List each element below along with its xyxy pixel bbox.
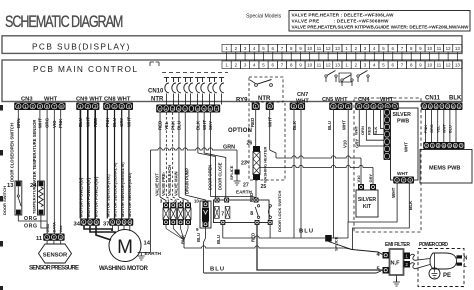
svg-text:Vcc: Vcc [58, 225, 63, 233]
svg-text:CN5 WHT: CN5 WHT [322, 97, 348, 103]
svg-text:DOOR LOCK SWITCH: DOOR LOCK SWITCH [277, 191, 282, 232]
drain pump wire BLU down [204, 227, 206, 273]
svg-text:MOTOR POWER(U): MOTOR POWER(U) [79, 177, 84, 217]
svg-text:WATER TEMPERATURE SENSOR: WATER TEMPERATURE SENSOR [32, 120, 37, 186]
valve common wires to earth bus [166, 225, 188, 229]
wire GRN down to motor earth [150, 150, 152, 253]
svg-text:WHT: WHT [397, 171, 408, 177]
relay symbols above CN5 CN4 [325, 75, 327, 77]
wire BLU motor sensor [114, 110, 116, 219]
wire WHT motor sensor [128, 110, 130, 219]
svg-text:OPTION: OPTION [228, 128, 252, 134]
svg-text:ORG: ORG [24, 216, 37, 222]
svg-text:BLU: BLU [112, 118, 117, 127]
svg-text:YEL: YEL [436, 125, 440, 133]
svg-text:V10: V10 [356, 175, 361, 183]
svg-text:TEMPERATURE: TEMPERATURE [31, 184, 36, 214]
svg-text:7: 7 [441, 105, 443, 109]
svg-text:WHT: WHT [442, 124, 446, 133]
svg-text:WHT: WHT [342, 120, 347, 130]
door lock terminals bottom [220, 220, 225, 225]
svg-text:ORN: ORN [360, 126, 365, 135]
connector CN4 pins [355, 103, 399, 111]
svg-text:BLK: BLK [181, 234, 186, 244]
svg-text:BLU: BLU [177, 121, 182, 130]
svg-text:NTR: NTR [258, 96, 271, 102]
washing motor M [109, 230, 141, 262]
PCB SUB DISPLAY board [2, 36, 462, 54]
valve pre coil [170, 203, 176, 209]
connector CN9 pins [76, 103, 99, 111]
svg-text:SENSOR: SENSOR [43, 252, 68, 258]
wires between display connectors [226, 52, 228, 61]
svg-text:ORG: ORG [430, 124, 434, 133]
bus BLU door lock to splice [223, 236, 348, 238]
wires CN11 to MEMS [425, 110, 427, 143]
earth 27 [236, 175, 238, 179]
connector CN5 pins [329, 103, 352, 111]
wire PNK motor sensor [106, 110, 108, 219]
svg-text:27: 27 [243, 183, 249, 189]
svg-text:13: 13 [7, 183, 14, 189]
svg-text:CN3: CN3 [21, 97, 33, 103]
svg-text:BLK: BLK [292, 120, 297, 130]
svg-text:2: 2 [426, 144, 428, 148]
door lock coil left 7 [215, 207, 220, 219]
svg-text:DRAIN PUMP: DRAIN PUMP [185, 168, 190, 194]
relay NTR pin 1 [252, 103, 260, 111]
wire BRN door switch [17, 110, 19, 181]
wire YEL valve pre dashed [165, 113, 167, 198]
svg-text:PNK: PNK [105, 117, 110, 127]
bus earth BLK to EMI pin 4 [184, 246, 345, 248]
svg-text:11: 11 [437, 46, 442, 51]
wire ORG door switch return [18, 215, 47, 221]
power cord squiggles [410, 254, 430, 260]
driver symbols above CN10 [166, 78, 168, 83]
svg-text:13: 13 [455, 46, 461, 51]
EMI pin 1 [404, 253, 411, 260]
svg-text:BLU: BLU [210, 267, 224, 273]
PE earth [434, 266, 436, 268]
PCB MAIN CONTROL board [2, 60, 462, 102]
motor sensor wires to motor [113, 226, 130, 231]
svg-text:10: 10 [427, 63, 433, 68]
wire RED from NTR [255, 110, 257, 146]
svg-text:2: 2 [447, 105, 449, 109]
relay RY9 NTR in dashed box [249, 77, 283, 102]
svg-text:SENSOR PRESSURE: SENSOR PRESSURE [29, 266, 79, 272]
svg-text:7: 7 [221, 211, 224, 217]
connector CN11 pins [421, 103, 462, 111]
wire WHT motor power V [87, 110, 89, 219]
svg-text:5: 5 [449, 144, 451, 148]
svg-text:8: 8 [250, 211, 253, 217]
wire BLU valve main [178, 113, 180, 198]
svg-text:13: 13 [335, 46, 341, 51]
svg-text:34: 34 [74, 222, 81, 228]
svg-text:9: 9 [196, 227, 199, 232]
EMI pin 2 [404, 261, 411, 268]
page edge marks [0, 105, 3, 111]
wire BLU from CN5 [332, 110, 334, 238]
connector CN10 pins [156, 105, 220, 113]
svg-text:Special Models: Special Models [246, 14, 282, 20]
relay NTR pin 2 [266, 103, 274, 111]
svg-text:SILVER: SILVER [358, 197, 377, 203]
svg-text:WASHING MOTOR: WASHING MOTOR [99, 266, 149, 272]
wire RED motor power W [94, 110, 96, 219]
svg-text:BLU: BLU [327, 121, 332, 130]
wires CN4 to silver pwb [359, 110, 383, 146]
svg-text:MOTOR POWER(V): MOTOR POWER(V) [86, 177, 91, 217]
wire SKY door lock switch [209, 113, 211, 197]
svg-text:N: N [464, 256, 468, 262]
wire PNK pressure [60, 110, 62, 234]
svg-text:PNK: PNK [170, 120, 175, 130]
wire GRN earth bus with hops [151, 148, 238, 150]
svg-text:GRY: GRY [119, 118, 124, 127]
svg-text:BLU: BLU [299, 229, 313, 235]
svg-text:3: 3 [160, 199, 163, 204]
svg-text:RED: RED [93, 118, 98, 127]
svg-text:CN8 WHT: CN8 WHT [104, 97, 131, 103]
svg-text:WHT: WHT [44, 97, 58, 103]
svg-text:RED: RED [158, 121, 163, 130]
door lock terminals top [215, 198, 220, 203]
door lock coil right [225, 207, 230, 219]
special models note box [289, 11, 470, 32]
svg-text:RY9: RY9 [236, 98, 248, 104]
svg-text:CN11: CN11 [425, 96, 441, 102]
wire RED valve hot [159, 113, 161, 198]
valve bleach coil [178, 203, 184, 209]
mems pwb board [420, 150, 472, 184]
svg-text:M: M [117, 237, 133, 258]
svg-text:26: 26 [247, 141, 253, 147]
svg-text:6: 6 [452, 105, 454, 109]
wire PNK valve bleach dashed [172, 113, 174, 198]
wire BLK door lock coil [197, 113, 199, 154]
svg-text:GND: GND [45, 224, 50, 233]
svg-text:SCHEMATIC DIAGRAM: SCHEMATIC DIAGRAM [5, 12, 123, 31]
silver kit box [356, 190, 378, 217]
svg-text:10: 10 [307, 46, 313, 51]
svg-text:1: 1 [458, 105, 460, 109]
svg-text:12: 12 [326, 46, 332, 51]
bus dark door lock switch to EMI pin 5 [257, 225, 383, 270]
svg-text:CN7: CN7 [297, 92, 308, 98]
svg-text:23: 23 [241, 161, 247, 167]
svg-text:PNK: PNK [58, 118, 63, 128]
svg-text:WHT: WHT [85, 117, 90, 127]
svg-text:VALVE HOT: VALVE HOT [155, 173, 160, 196]
svg-text:12: 12 [446, 46, 452, 51]
wire WHT from silver pwb [348, 184, 397, 239]
svg-text:KIT: KIT [363, 204, 372, 210]
svg-text:PE: PE [443, 273, 451, 279]
svg-text:14: 14 [144, 241, 151, 247]
wire WHT from NTR to silver bus [269, 110, 271, 150]
power cord dashed box [418, 249, 464, 287]
svg-text:VALVE PRE,HEATER,SILVER KIT/PW: VALVE PRE,HEATER,SILVER KIT/PWB,GUIDE WA… [292, 24, 470, 29]
svg-text:WHT: WHT [391, 187, 396, 198]
svg-text:WHT: WHT [354, 125, 359, 135]
svg-text:EARTH: EARTH [145, 251, 162, 257]
svg-text:37: 37 [103, 222, 109, 228]
door lock switch contact 2 [269, 205, 271, 207]
plug prong N [457, 255, 463, 258]
svg-text:BLU: BLU [216, 235, 221, 244]
svg-text:12: 12 [326, 63, 332, 68]
svg-text:BRN: BRN [16, 118, 21, 128]
svg-text:DOOR CLOSE/OPEN SWITCH: DOOR CLOSE/OPEN SWITCH [10, 123, 15, 182]
svg-text:SKY: SKY [208, 121, 213, 130]
svg-text:VALVE PRE-: VALVE PRE- [161, 171, 166, 196]
plug prong L [457, 263, 463, 266]
splice square [325, 235, 332, 242]
wire BLK from silver pwb [353, 184, 410, 250]
wire BLK from CN7 [293, 110, 295, 238]
svg-text:V10: V10 [343, 140, 348, 148]
svg-text:SILVER: SILVER [393, 112, 412, 118]
svg-text:11: 11 [437, 63, 442, 68]
svg-text:WHT: WHT [202, 120, 207, 130]
svg-text:WHT: WHT [268, 117, 273, 127]
svg-text:GRN: GRN [223, 145, 235, 151]
svg-text:WHT: WHT [404, 142, 409, 152]
svg-text:PCB MAIN CONTROL: PCB MAIN CONTROL [33, 64, 138, 74]
wire WHT from CN5 to silver power [347, 110, 349, 222]
svg-text:BLU: BLU [449, 125, 453, 133]
dashed option boundary heater [249, 103, 285, 180]
svg-text:PCB SUB(DISPLAY): PCB SUB(DISPLAY) [32, 41, 131, 51]
svg-text:WHT: WHT [37, 118, 42, 128]
svg-text:RED: RED [250, 233, 255, 242]
silver pwb board [391, 108, 419, 180]
dashed option box silver [354, 98, 421, 232]
green earth splice [236, 150, 238, 170]
svg-text:MOTOR POWER(W): MOTOR POWER(W) [93, 176, 98, 217]
svg-text:8: 8 [454, 144, 456, 148]
wire CN7 pin2 down [300, 110, 302, 238]
svg-text:RED: RED [250, 118, 255, 127]
svg-text:11: 11 [317, 46, 322, 51]
EMI filter box [390, 249, 404, 275]
wire BLU motor power U [79, 110, 81, 219]
svg-text:BLU: BLU [196, 233, 201, 242]
svg-text:MOTOR SENSOR(SIGNAL B): MOTOR SENSOR(SIGNAL B) [120, 162, 125, 217]
svg-text:MOTOR SENSOR(Vcc): MOTOR SENSOR(Vcc) [105, 174, 110, 217]
svg-text:VALVE PRE : DELETE->WF: VALVE PRE : DELETE->WF3068HW [292, 18, 390, 23]
svg-text:VALVE BLEACH: VALVE BLEACH [167, 165, 172, 196]
svg-text:11: 11 [36, 236, 43, 242]
valve main coil [185, 203, 191, 209]
connector CN8 pins [103, 103, 133, 111]
svg-text:12: 12 [446, 63, 452, 68]
svg-text:EMI FILTER: EMI FILTER [385, 242, 410, 248]
wire ORG temp sensor return [41, 215, 47, 228]
svg-text:PWB: PWB [397, 119, 409, 125]
svg-text:3: 3 [429, 105, 431, 109]
motor power wires to motor [84, 226, 112, 231]
svg-text:VALVE MAIN: VALVE MAIN [173, 171, 178, 196]
EMI earth [396, 275, 398, 282]
svg-text:1: 1 [431, 144, 433, 148]
svg-text:BLU: BLU [78, 118, 83, 127]
valve hot coil [163, 203, 169, 209]
svg-text:YEL: YEL [164, 121, 169, 130]
svg-text:WASHING HEATER: WASHING HEATER [263, 147, 268, 183]
wire ORG pressure [46, 110, 48, 234]
svg-text:4: 4 [435, 105, 437, 109]
svg-text:MEMS PWB: MEMS PWB [429, 166, 460, 172]
svg-text:RED: RED [367, 126, 372, 135]
svg-text:13: 13 [455, 63, 461, 68]
svg-text:SPLICE: SPLICE [229, 165, 234, 180]
wire GRY motor sensor [121, 110, 123, 219]
mems connector [423, 142, 464, 149]
svg-text:GRY: GRY [368, 174, 373, 183]
wire VIO bus to silver kit [270, 150, 276, 158]
svg-text:POWER CORD: POWER CORD [419, 242, 448, 248]
wire GRY bus to silver kit [260, 165, 373, 167]
svg-text:13: 13 [335, 63, 341, 68]
svg-text:5: 5 [424, 105, 426, 109]
svg-text:ORG: ORG [45, 117, 50, 128]
svg-text:MOTOR SENSOR(SIGNAL A): MOTOR SENSOR(SIGNAL A) [113, 162, 118, 217]
bus BLU drain pump to EMI pin 5 [204, 271, 381, 273]
wire WHT door lock coil [203, 113, 205, 154]
svg-text:NTR: NTR [151, 97, 164, 103]
svg-text:3: 3 [437, 144, 439, 148]
title [5, 12, 123, 31]
svg-text:DOOR OPEN: DOOR OPEN [208, 165, 213, 190]
svg-text:10: 10 [427, 46, 433, 51]
svg-text:VIO: VIO [52, 120, 57, 128]
silver pwb connector [384, 108, 391, 160]
connector CN7 pins [290, 103, 305, 111]
display connector pin rows [222, 44, 231, 52]
svg-text:BLK: BLK [195, 120, 200, 130]
svg-text:GRY: GRY [355, 139, 360, 148]
svg-text:CN9 WHT: CN9 WHT [76, 97, 103, 103]
svg-text:6: 6 [443, 144, 445, 148]
svg-text:MOTOR SENSOR(GND): MOTOR SENSOR(GND) [127, 172, 132, 217]
wire WHT temp sensor [39, 110, 41, 181]
pressure sensor body [46, 241, 48, 244]
svg-text:DATA: DATA [51, 222, 56, 233]
svg-text:10: 10 [307, 63, 313, 68]
svg-text:ORG: ORG [24, 224, 37, 230]
svg-text:DOOR CLOSE: DOOR CLOSE [217, 162, 222, 190]
svg-text:PNK: PNK [424, 125, 428, 133]
splice to EMI pin 4 [329, 242, 383, 255]
door lock switch box [214, 200, 270, 223]
svg-text:N,F: N,F [391, 261, 401, 267]
wire VIO pressure [53, 110, 55, 234]
svg-text:CN10: CN10 [148, 89, 164, 95]
svg-text:7: 7 [460, 144, 462, 148]
svg-text:BLK: BLK [449, 96, 462, 102]
power plug [430, 253, 457, 269]
connector CN3 pins [14, 103, 65, 111]
svg-text:RED: RED [249, 193, 254, 202]
svg-text:BLK: BLK [408, 200, 413, 210]
svg-text:11: 11 [317, 63, 322, 68]
svg-text:25: 25 [261, 184, 267, 190]
drain pump 10 [200, 201, 211, 228]
svg-text:WHT: WHT [126, 117, 131, 127]
svg-text:10: 10 [194, 199, 200, 204]
wire drain pump [184, 113, 186, 196]
svg-text:VALVE PRE,HEATER : DELETE->WF3: VALVE PRE,HEATER : DELETE->WF306LAW [292, 13, 395, 18]
